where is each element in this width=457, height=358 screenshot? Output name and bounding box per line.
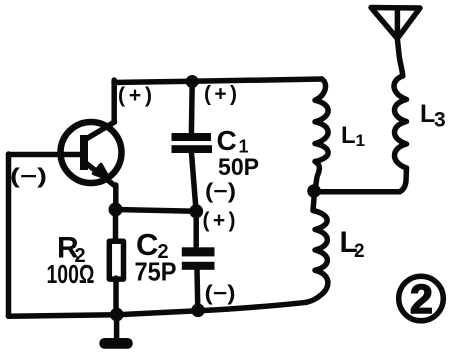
figure number 2 circle: [399, 276, 444, 321]
wire collector riser: [111, 80, 117, 122]
label 75P: [135, 257, 177, 287]
label L2: [340, 226, 365, 262]
svg-text:(+): (+): [203, 209, 236, 232]
node junction L1/L2 tap: [307, 184, 321, 198]
wire top rail: [114, 79, 322, 83]
node junction ground rail: [110, 308, 124, 322]
label (+) top left: [118, 84, 152, 107]
label C2: [136, 227, 169, 263]
svg-text:3: 3: [434, 109, 446, 132]
wire mid-right horizontal (tap to L3): [314, 189, 400, 195]
label R2: [57, 232, 86, 268]
inductor L3: [394, 39, 407, 192]
wire bottom rail: [9, 302, 307, 316]
svg-text:(−): (−): [10, 165, 47, 188]
label (+) C2 top: [203, 209, 236, 232]
wire left rail: [6, 154, 12, 316]
wire base lead from left rail: [9, 152, 65, 158]
svg-text:2: 2: [354, 241, 365, 262]
svg-text:2: 2: [410, 276, 433, 322]
label (-) C1 bottom: [205, 180, 236, 203]
node junction top rail / C1: [186, 75, 199, 88]
wire mid-left horizontal: [116, 210, 197, 212]
label (-) C2 bottom: [205, 282, 236, 305]
wire emitter drop: [113, 185, 119, 210]
svg-text:(+): (+): [118, 84, 152, 107]
svg-text:C: C: [217, 125, 237, 156]
wire C2 top lead: [193, 212, 199, 248]
label C1: [217, 125, 249, 157]
inductor L2: [307, 192, 328, 302]
capacitor C2: [182, 247, 215, 269]
svg-text:100Ω: 100Ω: [47, 259, 95, 289]
label L1: [341, 122, 365, 150]
inductor L1: [315, 79, 328, 187]
svg-text:75P: 75P: [135, 257, 177, 287]
antenna: [371, 8, 420, 39]
wire C1 top lead: [189, 82, 195, 134]
svg-text:50P: 50P: [218, 154, 259, 181]
wire C2 bottom lead: [194, 269, 200, 310]
label (+) C1 top: [204, 83, 237, 106]
svg-text:1: 1: [356, 131, 365, 150]
figure number 2 digit: [410, 276, 433, 322]
node junction C2 top: [189, 204, 203, 218]
svg-text:(+): (+): [204, 83, 237, 106]
node junction emitter / mid wire: [109, 203, 123, 217]
wire R2 top lead: [113, 210, 119, 242]
svg-text:L: L: [341, 122, 356, 149]
label 100 ohm: [47, 259, 95, 289]
label (-) base: [10, 165, 47, 188]
capacitor C1: [172, 133, 213, 153]
resistor R2: [109, 241, 123, 279]
wire C1 bottom lead: [191, 152, 196, 210]
svg-text:(−): (−): [205, 180, 236, 203]
svg-text:(−): (−): [205, 282, 236, 305]
label L3: [420, 100, 446, 132]
label 50P: [218, 154, 259, 181]
wire R2 bottom lead: [113, 278, 119, 315]
ground: [99, 315, 133, 349]
node junction C2 bottom rail: [191, 304, 205, 318]
svg-text:L: L: [420, 100, 435, 128]
transistor Q1: [61, 122, 122, 187]
